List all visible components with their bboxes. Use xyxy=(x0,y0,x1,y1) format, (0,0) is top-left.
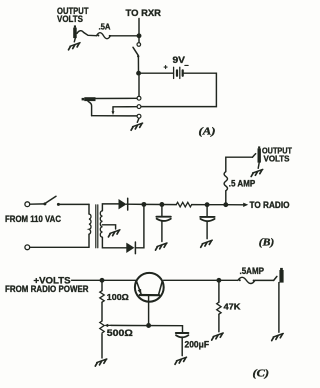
node (battery +) xyxy=(136,71,141,76)
wire plug P1 stem to ground xyxy=(74,38,75,42)
svg-text:(C): (C) xyxy=(253,368,270,379)
node cap C1 xyxy=(159,202,164,207)
wire bottom terminal to transformer primary xyxy=(30,246,89,248)
wire R2 to R3 xyxy=(101,302,103,321)
wire fuse node up xyxy=(225,191,227,205)
wire resistor to cap2 node xyxy=(192,204,207,206)
label 47K xyxy=(224,301,242,311)
transistor Q1 collector xyxy=(159,282,163,295)
wire node to battery xyxy=(139,72,174,74)
label OUTPUT VOLTS (B) xyxy=(262,147,292,164)
label 100 ohm xyxy=(107,292,129,302)
jack spring contact at plug J3 xyxy=(252,154,255,158)
resistor R4 (47K) xyxy=(217,302,221,314)
label (B) xyxy=(259,238,275,249)
transistor Q1 base bar xyxy=(140,294,160,296)
ground under plug P1 xyxy=(69,43,81,50)
wire sleeve contact to ground xyxy=(137,118,139,122)
svg-text:VOLTS: VOLTS xyxy=(57,14,83,25)
node fuse junction xyxy=(223,202,228,207)
terminal bottom (110 VAC) xyxy=(25,245,30,250)
wire D1 to bus xyxy=(127,203,144,205)
switch S1 xyxy=(133,43,141,58)
wire cap1 node to resistor xyxy=(162,204,176,206)
wire plug J3 to ground xyxy=(258,163,259,169)
svg-text:FROM RADIO POWER: FROM RADIO POWER xyxy=(5,284,89,294)
ground under C3 xyxy=(175,357,187,364)
node 47K junction xyxy=(216,278,221,283)
wire battery to right side down xyxy=(141,73,216,106)
plug P1 (output volts, vertical) xyxy=(73,25,77,38)
capacitor C3 (200uF) xyxy=(176,333,189,356)
ground center tap xyxy=(108,230,120,237)
transformer T1 secondary bottom lead xyxy=(102,237,126,248)
resistor R3 (500 ohm pot) xyxy=(100,321,104,333)
svg-text:TO RADIO: TO RADIO xyxy=(250,200,290,210)
svg-text:TO RXR: TO RXR xyxy=(126,8,162,19)
NC contact arrow xyxy=(112,107,114,112)
battery B1 (9V) xyxy=(174,67,183,78)
label 9V xyxy=(173,55,186,65)
switch S2 lever xyxy=(45,196,56,203)
capacitor C1 xyxy=(156,205,170,242)
capacitor C2 xyxy=(200,205,214,239)
ground under C2 xyxy=(201,240,213,247)
node base junction xyxy=(146,323,151,328)
jack J1 sleeve contact xyxy=(137,114,141,118)
node cap C2 xyxy=(205,202,210,207)
transistor Q1 base stem xyxy=(148,295,150,325)
label 200uF xyxy=(185,339,210,349)
svg-text:200μF: 200μF xyxy=(185,339,210,349)
label 500 ohm xyxy=(107,328,133,339)
plug J3 (output volts, vertical) xyxy=(258,146,261,162)
label .5 AMP xyxy=(229,178,256,188)
wire node to switch xyxy=(138,36,140,43)
wire diode junction down xyxy=(136,204,144,247)
switch S2 contact dot xyxy=(57,203,60,206)
wire cap2 node to fuse node xyxy=(207,204,226,206)
wire R4 to ground xyxy=(218,314,220,332)
transformer T1 center tap xyxy=(102,225,115,229)
resistor R2 (100 ohm) xyxy=(100,291,104,302)
wire bus node to cap1 node xyxy=(144,203,162,205)
resistor R2 (100 ohm) wire down xyxy=(101,280,103,290)
battery B1 plus sign xyxy=(164,66,167,69)
plug P2 (horizontal phone plug) xyxy=(82,97,96,101)
fuse F1 (.5A) xyxy=(97,33,111,39)
label 5AMP xyxy=(240,266,265,276)
label FROM RADIO POWER xyxy=(5,284,89,294)
ground under R4 xyxy=(212,333,224,340)
wire plug P1 to fuse F1 xyxy=(77,31,97,36)
label FROM 110 VAC xyxy=(5,214,61,224)
wire R3 to ground xyxy=(101,334,103,358)
transistor Q1 circle xyxy=(135,273,164,302)
label +VOLTS xyxy=(34,276,71,286)
svg-text:100Ω: 100Ω xyxy=(107,292,129,302)
svg-text:FROM 110 VAC: FROM 110 VAC xyxy=(5,214,61,224)
label TO RXR xyxy=(126,8,162,19)
wire TO RXR down xyxy=(138,19,140,36)
wire terminal to switch pivot xyxy=(30,203,45,205)
label (A) xyxy=(199,127,216,138)
label TO RADIO xyxy=(250,200,290,210)
wire switch to node xyxy=(137,57,139,74)
pot R3 wiper arrow xyxy=(107,324,112,326)
wire sleeve hook to jack sleeve contact xyxy=(92,115,137,117)
wire switch to transformer primary xyxy=(58,203,89,205)
jack spring contact at plug J4 xyxy=(274,276,277,280)
fuse F2 (.5 AMP, vertical) xyxy=(224,172,227,191)
fuse F3 (5AMP) xyxy=(238,277,255,283)
battery B1 minus sign xyxy=(185,64,188,66)
ground under R3 xyxy=(95,359,107,366)
transformer T1 core xyxy=(96,205,98,248)
transformer T1 secondary winding xyxy=(100,211,102,238)
wire fuse F1 to node xyxy=(111,35,140,37)
terminal top (110 VAC) xyxy=(25,202,30,207)
capacitor C3 stem xyxy=(182,326,184,333)
transistor Q1 emitter with arrow xyxy=(137,282,141,294)
node 100 ohm junction xyxy=(100,278,105,283)
svg-text:500Ω: 500Ω xyxy=(107,328,133,339)
wire fuse node to TO RADIO arrow xyxy=(226,204,244,206)
svg-text:47K: 47K xyxy=(224,301,242,311)
node diode junction xyxy=(141,202,146,207)
wiper bus wire xyxy=(111,324,183,326)
plug J4 (vertical) xyxy=(279,268,283,283)
node (fuse / rxr junction) xyxy=(137,33,142,38)
wire plug J4 down to ground xyxy=(278,283,280,333)
svg-text:.5A: .5A xyxy=(99,21,111,31)
ground under jack J1 xyxy=(131,123,143,130)
wire 47K node down xyxy=(218,280,220,302)
wire battery node down to tip contact xyxy=(138,73,140,96)
arrow TO RADIO xyxy=(243,203,248,207)
wire fuse to plug contact xyxy=(255,279,274,281)
plug P2 sleeve contact hook xyxy=(88,101,92,116)
resistor R1 (filter) xyxy=(176,202,191,207)
svg-text:(A): (A) xyxy=(199,127,216,138)
label .5A xyxy=(99,21,111,31)
svg-text:(B): (B) xyxy=(259,238,275,249)
svg-text:.5AMP: .5AMP xyxy=(240,266,265,276)
diode D1 xyxy=(119,198,128,210)
svg-text:9V: 9V xyxy=(173,55,186,65)
wire plug P2 tip to jack tip contact xyxy=(96,97,138,99)
ground under plug J4 xyxy=(272,334,284,341)
transformer T1 primary winding xyxy=(89,204,91,247)
ground under C1 xyxy=(156,243,168,250)
svg-text:VOLTS: VOLTS xyxy=(264,154,291,163)
diode D2 xyxy=(126,242,135,254)
label OUTPUT VOLTS (A jack) xyxy=(57,6,89,25)
jack J1 tip contact xyxy=(137,96,141,100)
svg-text:.5 AMP: .5 AMP xyxy=(229,178,256,188)
wire collector to fuse xyxy=(164,279,238,281)
ground under plug J3 xyxy=(251,169,263,176)
wire middle contact left segment xyxy=(113,106,137,108)
wire fuse top to plug contact xyxy=(226,157,253,171)
wire +volts to transistor xyxy=(72,279,137,281)
label (C) xyxy=(253,368,270,379)
transformer T1 secondary top lead xyxy=(102,204,118,211)
jack J1 middle contact xyxy=(137,105,141,109)
switch S2 pivot dot xyxy=(43,202,46,205)
